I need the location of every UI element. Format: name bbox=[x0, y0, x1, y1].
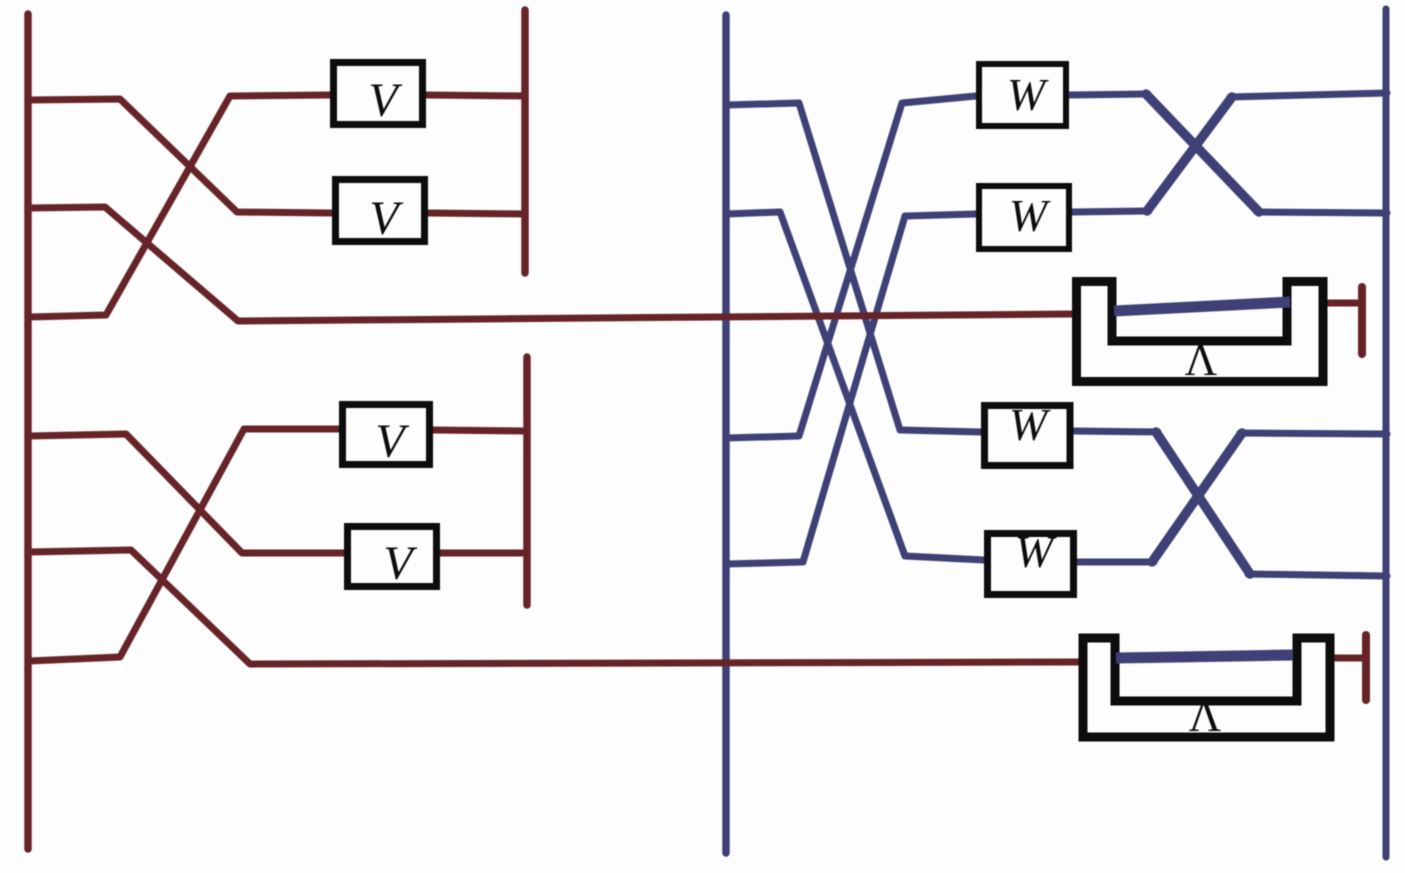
svg-text:Λ: Λ bbox=[1185, 335, 1218, 385]
svg-text:W: W bbox=[1009, 190, 1051, 241]
svg-text:V: V bbox=[368, 74, 402, 127]
svg-text:V: V bbox=[375, 415, 409, 468]
svg-text:V: V bbox=[369, 192, 403, 245]
svg-text:W: W bbox=[1015, 526, 1057, 577]
svg-text:V: V bbox=[383, 537, 417, 590]
svg-text:Λ: Λ bbox=[1189, 691, 1222, 741]
svg-text:W: W bbox=[1007, 69, 1049, 120]
svg-text:W: W bbox=[1009, 399, 1051, 450]
